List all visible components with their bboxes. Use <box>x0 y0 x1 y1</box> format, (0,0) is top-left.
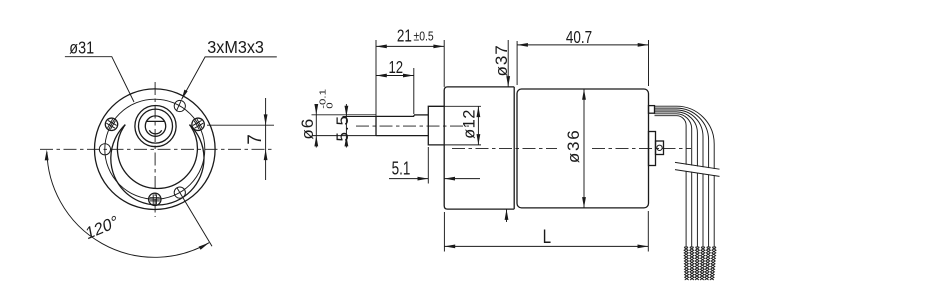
M3 hole H2 (upper right) <box>174 100 185 111</box>
shaft axis centerline <box>356 125 469 127</box>
wire end ticks <box>684 246 716 248</box>
dim ø36 text <box>564 128 583 163</box>
end cap boss <box>649 132 656 166</box>
dim L ext right <box>647 211 649 252</box>
dim L ext left <box>443 212 445 252</box>
svg-text:ø31: ø31 <box>69 38 94 58</box>
svg-text:±0.5: ±0.5 <box>414 29 435 43</box>
dim ø12 text <box>461 109 479 139</box>
centerline horizontal <box>40 148 275 150</box>
dim 7 line <box>265 98 267 180</box>
dim L text <box>543 225 551 247</box>
motor body <box>517 89 649 208</box>
svg-text:40.7: 40.7 <box>566 28 592 47</box>
dim 120 arrow right <box>199 243 210 250</box>
shaft flat chord <box>147 120 165 122</box>
shaft outline <box>376 115 428 136</box>
motor axis centerline seg2 <box>592 147 691 149</box>
label 3xM3x3 <box>207 37 264 57</box>
svg-text:0: 0 <box>326 102 335 109</box>
motor axis centerline seg1 <box>452 147 557 149</box>
svg-text:5.1: 5.1 <box>392 159 411 180</box>
label ø31 <box>69 38 94 58</box>
dim 5.1 extension <box>427 147 429 184</box>
dim 120 text <box>84 211 119 243</box>
dim ø37 text <box>492 44 511 76</box>
dim 21 line <box>376 45 444 47</box>
dim 40.7 ext left <box>516 41 518 85</box>
dim ø37 line bottom <box>506 209 508 222</box>
dim 120 arrow left <box>45 150 49 161</box>
dim 12 text <box>388 58 403 77</box>
dim ø37 line top <box>507 40 509 87</box>
inner bore arc <box>149 130 161 134</box>
hub ring outer <box>135 106 176 147</box>
dim 5.1 line <box>389 178 428 180</box>
gearbox face outer circle <box>95 89 216 210</box>
dim 5.5 tolerance text <box>319 89 335 109</box>
svg-text:ø36: ø36 <box>564 128 583 163</box>
shaft dim extension lines <box>312 114 377 116</box>
boss ø12 <box>428 106 444 145</box>
dim 12 extension up <box>375 40 377 116</box>
dim 7 extension line <box>207 124 274 126</box>
gearbox body <box>444 87 514 209</box>
terminal tab <box>649 106 655 114</box>
svg-text:12: 12 <box>388 58 403 77</box>
screw S2 (upper right) <box>190 116 207 133</box>
dim ø6 line <box>315 104 317 148</box>
screw S3 (bottom) <box>149 193 161 205</box>
wires <box>655 106 715 247</box>
dim 40.7 line <box>517 44 648 46</box>
dim 5.5 line <box>345 104 347 148</box>
M3 hole H1 (left) <box>99 144 110 155</box>
bolt circle ø31 <box>105 99 205 199</box>
twisted wire ends <box>684 248 716 281</box>
dim 7 arrows <box>264 114 268 125</box>
svg-text:5.5: 5.5 <box>333 115 352 142</box>
dim ø36 line <box>583 89 585 208</box>
M3 hole H3 (lower right) <box>174 187 185 198</box>
dim 120 radial extension <box>177 188 212 247</box>
hub ring inner <box>139 109 173 143</box>
dim 120 arc <box>47 152 209 257</box>
dim 7 text <box>245 134 266 145</box>
dim 12 line <box>376 75 414 77</box>
centerline vertical <box>154 82 156 217</box>
dim 40.7 text <box>566 28 592 47</box>
screw S1 (upper left) <box>103 116 120 133</box>
dim 40.7 ext right <box>648 40 650 86</box>
end cap circle <box>657 145 662 150</box>
svg-text:21: 21 <box>397 27 412 46</box>
wire break symbol <box>675 162 720 176</box>
gearbox front face extension <box>443 40 445 87</box>
leader 3xM3x3 <box>182 57 277 100</box>
shaft circle <box>145 116 165 136</box>
dim L line <box>444 245 648 247</box>
leader ø31 <box>65 57 134 102</box>
dim 21 text <box>397 27 412 46</box>
svg-text:L: L <box>543 225 551 247</box>
svg-text:ø12: ø12 <box>461 109 479 139</box>
dim ø12 line <box>444 105 481 107</box>
dim ø6 text <box>298 118 317 140</box>
end cap inner block <box>656 141 664 155</box>
svg-text:3xM3x3: 3xM3x3 <box>207 37 264 57</box>
crescent outer arc <box>111 125 204 205</box>
gearbox rear face <box>513 87 515 209</box>
crescent inner arc <box>117 125 197 189</box>
svg-text:ø37: ø37 <box>492 44 511 76</box>
dim 5.1 text <box>392 159 411 180</box>
dim 5.5 text <box>333 115 352 142</box>
svg-text:7: 7 <box>245 134 266 145</box>
svg-text:ø6: ø6 <box>298 118 317 140</box>
